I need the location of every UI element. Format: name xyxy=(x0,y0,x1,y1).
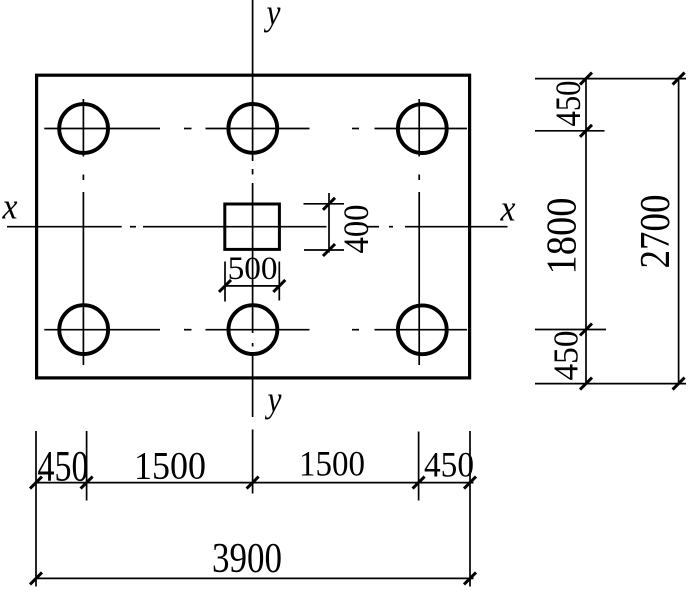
pile bottom-right xyxy=(398,305,447,354)
column section square xyxy=(225,204,280,249)
bottom 3900 dimension line xyxy=(35,577,474,579)
dimension 400 tick bottom xyxy=(323,244,335,256)
right inner dimension line xyxy=(585,79,587,384)
dimension 400 line xyxy=(328,193,330,253)
bottom tick d1 left-pile xyxy=(81,477,93,489)
bottom tick d1 right-pile xyxy=(413,477,425,489)
svg-text:450: 450 xyxy=(38,444,89,491)
y axis label top xyxy=(263,0,281,34)
pile top-right xyxy=(398,104,447,153)
bottom dim text 1500 left xyxy=(134,445,206,488)
svg-text:1800: 1800 xyxy=(540,198,586,275)
right tick inner top xyxy=(580,73,592,85)
bottom dims extension line far-right xyxy=(469,431,471,587)
right dims extension line row1 xyxy=(535,130,605,132)
pile top-left xyxy=(59,104,108,153)
svg-text:1500: 1500 xyxy=(134,445,206,488)
bottom dims extension line right-pile xyxy=(418,432,420,501)
bottom tick d1 far-right xyxy=(464,477,476,489)
right dims extension line row2 xyxy=(535,329,606,331)
right dim text 450 top xyxy=(548,81,588,127)
right tick inner bottom xyxy=(580,378,592,390)
x axis label right xyxy=(500,189,516,230)
dimension 500 line xyxy=(225,285,279,287)
bottom dims extension line left-pile xyxy=(86,431,88,501)
svg-text:y: y xyxy=(263,0,281,34)
right dim text 450 bottom xyxy=(547,331,586,381)
svg-text:2700: 2700 xyxy=(633,195,679,269)
svg-text:500: 500 xyxy=(228,251,278,287)
svg-text:400: 400 xyxy=(336,205,376,254)
bottom dim text 3900 xyxy=(212,536,282,582)
pile top-middle xyxy=(228,104,277,153)
bottom dim text 1500 right xyxy=(299,444,365,484)
svg-text:450: 450 xyxy=(548,81,588,127)
svg-text:y: y xyxy=(264,380,282,421)
svg-text:1500: 1500 xyxy=(299,444,365,484)
left column centerline xyxy=(82,99,84,365)
y axis centerline xyxy=(252,0,254,417)
y axis label bottom xyxy=(264,380,282,421)
svg-text:x: x xyxy=(2,187,18,228)
bottom dims extension line center xyxy=(252,430,254,494)
right tick outer bottom xyxy=(673,378,685,390)
bottom tick d1 center xyxy=(247,477,259,489)
x axis centerline xyxy=(7,226,508,228)
right outer dimension line xyxy=(678,79,680,384)
right dim text 1800 xyxy=(540,198,586,275)
right column centerline xyxy=(418,99,420,365)
right dims extension line top xyxy=(535,78,686,80)
dimension 500 extension lines xyxy=(225,262,279,302)
right tick inner row2 xyxy=(580,324,592,336)
pile bottom-middle xyxy=(229,305,278,354)
right tick inner row1 xyxy=(580,125,592,137)
right dims extension line bottom xyxy=(535,383,686,385)
right dim text 2700 xyxy=(633,195,679,269)
dimension 500 text xyxy=(228,251,278,287)
bottom dims extension line far-left xyxy=(35,431,37,587)
svg-text:450: 450 xyxy=(424,445,474,485)
bottom tick 3900 right xyxy=(464,572,476,584)
bottom dim text 450 left xyxy=(38,444,89,491)
svg-text:3900: 3900 xyxy=(212,536,282,582)
dimension 500 tick right xyxy=(273,280,285,292)
pile bottom-left xyxy=(59,305,108,354)
top row centerline xyxy=(44,128,467,130)
svg-text:450: 450 xyxy=(547,331,586,381)
bottom dim text 450 right xyxy=(424,445,474,485)
bottom upper dimension line xyxy=(35,482,474,484)
dimension 400 extension lines xyxy=(304,204,345,250)
dimension 400 tick top xyxy=(323,198,335,210)
right tick outer top xyxy=(673,73,685,85)
svg-text:x: x xyxy=(500,189,516,230)
pile cap outline xyxy=(37,75,470,378)
dimension 400 text xyxy=(336,205,376,254)
bottom row centerline xyxy=(44,329,467,331)
bottom tick 3900 left xyxy=(30,572,42,584)
dimension 500 tick left xyxy=(219,280,231,292)
x axis label left xyxy=(2,187,18,228)
bottom tick d1 far-left xyxy=(30,477,42,489)
